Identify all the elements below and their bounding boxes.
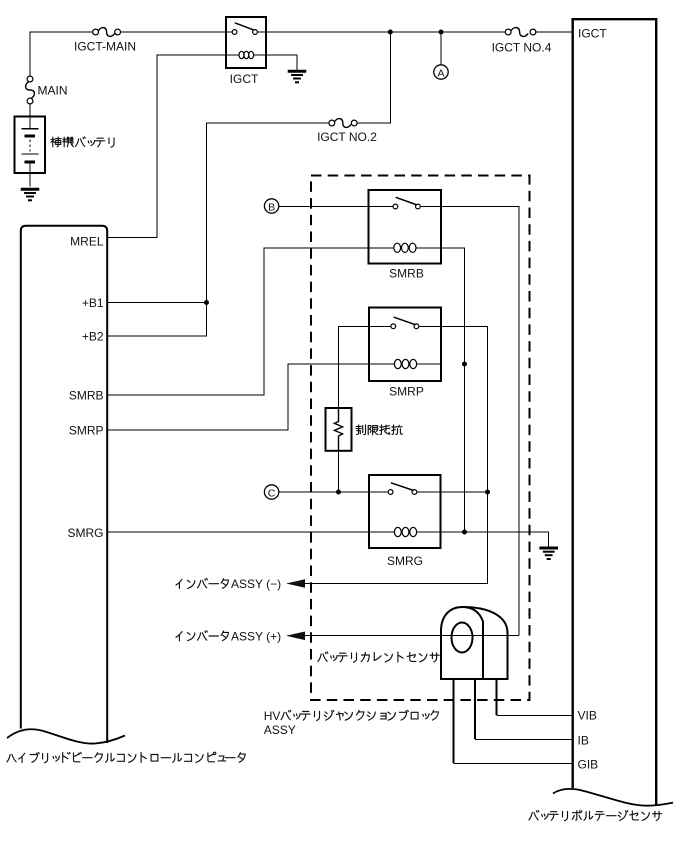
svg-text:MAIN: MAIN — [38, 84, 68, 98]
node junction SMRP coil — [462, 362, 467, 367]
pin SMRB — [69, 388, 104, 402]
svg-text:IGCT NO.2: IGCT NO.2 — [317, 130, 377, 144]
label バッテリボルテージセンサ — [529, 810, 662, 820]
fuse IGCT-MAIN — [93, 28, 121, 37]
node junction coil common — [462, 530, 467, 535]
wire SMRG pin to coil line — [108, 531, 369, 533]
pin GIB — [578, 757, 599, 771]
svg-text:MREL: MREL — [70, 235, 104, 249]
wire SMRG switch right to junction — [417, 491, 488, 493]
relay SMRB — [369, 190, 442, 264]
svg-text:SMRB: SMRB — [389, 267, 424, 281]
svg-text:GIB: GIB — [578, 757, 599, 771]
wire MAIN fuse to battery — [29, 104, 31, 116]
wire battery to IGCT-MAIN fuse top rail — [30, 32, 93, 76]
relay SMRP — [369, 308, 441, 382]
node junction minus riser — [485, 490, 490, 495]
svg-text:IGCT: IGCT — [230, 72, 259, 86]
wire SMRG coil to ground — [441, 532, 549, 547]
svg-text:SMRP: SMRP — [69, 423, 104, 437]
node C — [264, 485, 278, 500]
label IGCT relay — [230, 72, 259, 86]
wire SMRB pin to coil — [108, 248, 369, 395]
label IGCT (right box pin) — [578, 27, 607, 41]
svg-text:SMRG: SMRG — [68, 526, 104, 540]
label IGCT NO.4 — [492, 41, 552, 55]
ground IGCT coil — [288, 71, 307, 82]
svg-text:A: A — [437, 67, 444, 79]
wire IGCT switch to right box — [266, 31, 505, 33]
wire IGCT coil to ground — [266, 55, 297, 71]
pin +B2 — [82, 329, 104, 343]
wire junction to node A — [440, 32, 442, 65]
wire SMRB switch out to riser — [420, 207, 519, 636]
svg-text:ASSY: ASSY — [264, 723, 296, 737]
node junction at x390 — [388, 30, 393, 35]
fuse IGCT NO.4 — [505, 28, 536, 37]
label インバータASSY (-) — [176, 577, 281, 591]
wire SMRP pin to coil — [108, 364, 369, 430]
node junction at x441 — [439, 30, 444, 35]
voltage sensor box (right) — [573, 19, 657, 805]
svg-text:IGCT: IGCT — [578, 27, 607, 41]
relay IGCT — [226, 17, 266, 68]
label SMRP — [389, 384, 424, 398]
wire SMRP switch right to inverter minus riser — [303, 326, 488, 583]
resistor 制限抵抗 — [326, 408, 352, 451]
wire node C to SMRG switch — [279, 491, 388, 493]
label インバータASSY (+) — [176, 629, 281, 643]
svg-text:VIB: VIB — [578, 709, 597, 723]
svg-text:B: B — [268, 201, 275, 213]
node B — [264, 199, 278, 214]
wire NO.4 fuse to IGCT box — [536, 31, 572, 33]
voltage sensor box bottom wavy — [553, 789, 673, 806]
svg-text:SMRP: SMRP — [389, 384, 424, 398]
sensor leg 1 to GIB — [454, 679, 573, 764]
label ASSY — [264, 723, 296, 737]
svg-text:IGCT-MAIN: IGCT-MAIN — [74, 40, 136, 54]
wire node B to SMRB switch — [279, 206, 393, 208]
node A — [434, 65, 448, 80]
relay SMRG — [369, 475, 441, 548]
label IGCT NO.2 — [317, 130, 377, 144]
wire junction down to IGCT NO.2 fuse line — [357, 32, 390, 123]
label SMRB — [389, 267, 424, 281]
label MAIN — [38, 84, 68, 98]
label ハイブリッドビークルコントロールコンピュータ — [7, 752, 245, 763]
wire fuse to IGCT relay — [121, 31, 233, 33]
computer box bottom wavy — [7, 729, 125, 743]
current sensor body — [441, 607, 508, 679]
battery 補機バッテリ — [15, 117, 46, 187]
node junction +B1 — [204, 300, 209, 305]
arrow inverter plus — [286, 632, 305, 641]
svg-text:IB: IB — [578, 733, 589, 747]
arrow inverter minus — [286, 579, 305, 588]
wire NO.2 to +B riser — [108, 123, 329, 336]
computer box (left) — [21, 226, 107, 743]
label HVバッテリジャンクションブロック — [264, 709, 439, 723]
svg-text:HV: HV — [264, 709, 281, 723]
label 補機バッテリ — [51, 137, 114, 147]
svg-text:+B2: +B2 — [82, 329, 104, 343]
svg-text:SMRG: SMRG — [387, 554, 423, 568]
wire inverter plus through sensor — [303, 635, 519, 637]
pin VIB — [578, 709, 597, 723]
fuse MAIN (vertical) — [26, 76, 35, 104]
label 制限抵抗 — [356, 425, 402, 435]
ground battery — [21, 189, 40, 200]
pin SMRG — [68, 526, 104, 540]
svg-text:ASSY (−): ASSY (−) — [231, 577, 281, 591]
wire +B1 — [108, 302, 207, 304]
sensor leg 3 to VIB — [496, 679, 572, 716]
svg-text:IGCT NO.4: IGCT NO.4 — [492, 41, 552, 55]
pin IB — [578, 733, 589, 747]
svg-text:SMRB: SMRB — [69, 388, 104, 402]
pin +B1 — [82, 296, 104, 310]
dashed junction block box — [311, 176, 530, 701]
pin SMRP — [69, 423, 104, 437]
svg-text:+B1: +B1 — [82, 296, 104, 310]
pin MREL — [70, 235, 104, 249]
sensor leg 2 to IB — [475, 679, 573, 740]
node junction resistor/C line — [336, 490, 341, 495]
wire resistor to C line — [338, 451, 340, 492]
fuse IGCT NO.2 — [329, 119, 357, 128]
wire SMRP switch left to resistor — [339, 326, 391, 408]
wire SMRB coil to common riser — [441, 248, 465, 532]
wire MREL riser to IGCT coil — [108, 55, 226, 238]
label SMRG — [387, 554, 423, 568]
ground SMRG — [539, 548, 558, 559]
svg-text:C: C — [268, 487, 276, 499]
label バッテリカレントセンサ — [318, 652, 439, 662]
svg-text:ASSY (+): ASSY (+) — [231, 629, 281, 643]
label IGCT-MAIN — [74, 40, 136, 54]
